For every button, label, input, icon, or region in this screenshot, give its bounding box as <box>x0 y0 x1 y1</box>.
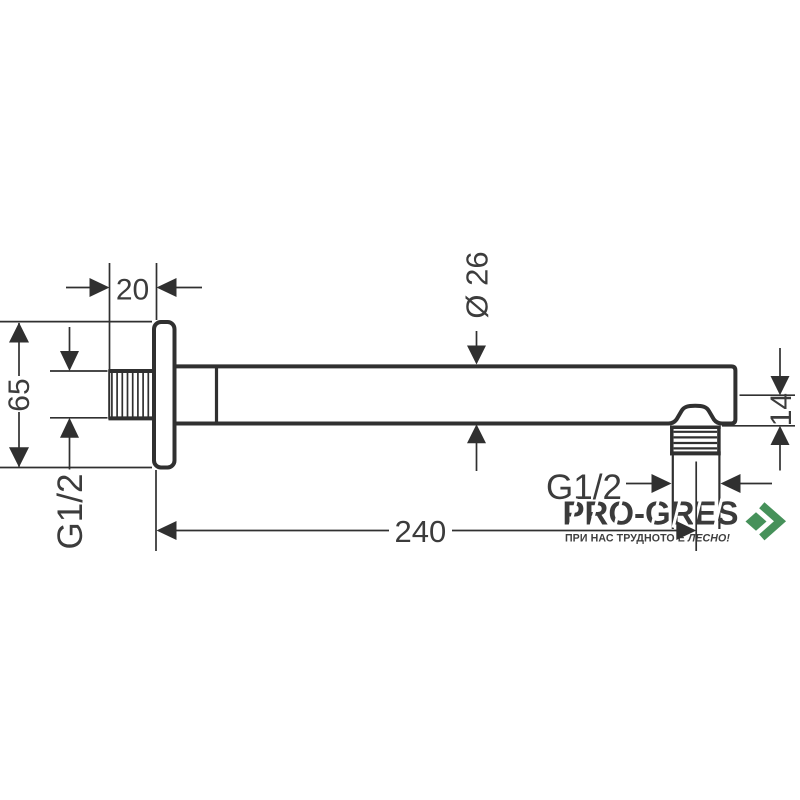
left thread left border <box>108 370 110 420</box>
svg-text:240: 240 <box>395 514 447 549</box>
dia26 arrow down <box>467 346 486 365</box>
shower arm pipe outline with dome <box>174 366 735 423</box>
20 dim tail right <box>176 287 202 289</box>
svg-text:Ø 26: Ø 26 <box>460 251 495 318</box>
svg-text:20: 20 <box>116 274 149 307</box>
svg-text:14: 14 <box>765 393 798 426</box>
white gap for 240 text <box>389 514 452 546</box>
flange bottom extension line <box>0 467 152 469</box>
14 arrow up <box>771 426 790 445</box>
outlet thread inner lines <box>674 432 718 449</box>
20 arrow right <box>90 278 110 297</box>
dia26 top leader <box>476 331 478 347</box>
outlet thread right border <box>717 426 721 456</box>
240 dim line left segment <box>176 530 389 532</box>
svg-text:65: 65 <box>3 378 36 411</box>
dia26 arrow up <box>467 424 486 443</box>
flange top extension line <box>0 321 152 323</box>
left thread top border <box>109 369 153 373</box>
G1/2 right dim tail left <box>626 483 653 485</box>
65 dimension line lower <box>18 412 20 467</box>
65 arrow down <box>9 447 29 467</box>
outlet centerline <box>695 462 697 552</box>
G1/2 right dim tail right <box>740 483 772 485</box>
thread dim arrow down <box>60 351 79 371</box>
left thread hatch lines <box>112 372 148 417</box>
240 left extension line <box>155 470 157 551</box>
logo green diamond <box>746 512 767 530</box>
pipe joint line <box>215 366 218 423</box>
20 right extension line <box>156 263 158 320</box>
20 left extension line <box>109 263 111 369</box>
G1/2 arrow right <box>652 474 672 493</box>
outlet tube right edge <box>718 455 720 529</box>
thread dim line upper <box>69 327 71 352</box>
20 arrow left <box>157 278 177 297</box>
outlet thread left border <box>670 426 674 456</box>
outlet thread top border <box>670 425 721 429</box>
240 arrow right <box>676 521 696 540</box>
stencil cuts on logo <box>568 498 723 528</box>
240 arrow left <box>157 521 177 540</box>
thread top extension line <box>50 370 108 372</box>
14 extension line lower <box>722 425 795 427</box>
outlet tube left edge <box>672 455 674 529</box>
240 dim line right segment <box>452 530 677 532</box>
left thread bottom border <box>109 416 153 420</box>
thread dim arrow up <box>60 418 79 438</box>
dia26 bottom leader <box>476 443 478 471</box>
logo green chevron <box>762 505 780 537</box>
65 arrow up <box>9 323 29 343</box>
65 dimension line upper <box>18 323 20 376</box>
20 dim tail left <box>66 287 90 289</box>
arrows <box>9 278 790 540</box>
thread dim line lower <box>69 437 71 470</box>
14 extension line upper <box>740 394 796 396</box>
G1/2 arrow left <box>721 474 741 493</box>
outlet thread bottom border <box>670 451 721 455</box>
14 dim line lower <box>779 445 781 471</box>
svg-text:ПРИ НАС ТРУДНОТО Е ЛЕСНО!: ПРИ НАС ТРУДНОТО Е ЛЕСНО! <box>565 533 730 545</box>
14 dim line upper <box>779 348 781 377</box>
svg-text:G1/2: G1/2 <box>51 474 90 550</box>
thread bottom extension line <box>50 417 108 419</box>
14 arrow down <box>771 376 790 395</box>
wall flange <box>154 322 175 468</box>
